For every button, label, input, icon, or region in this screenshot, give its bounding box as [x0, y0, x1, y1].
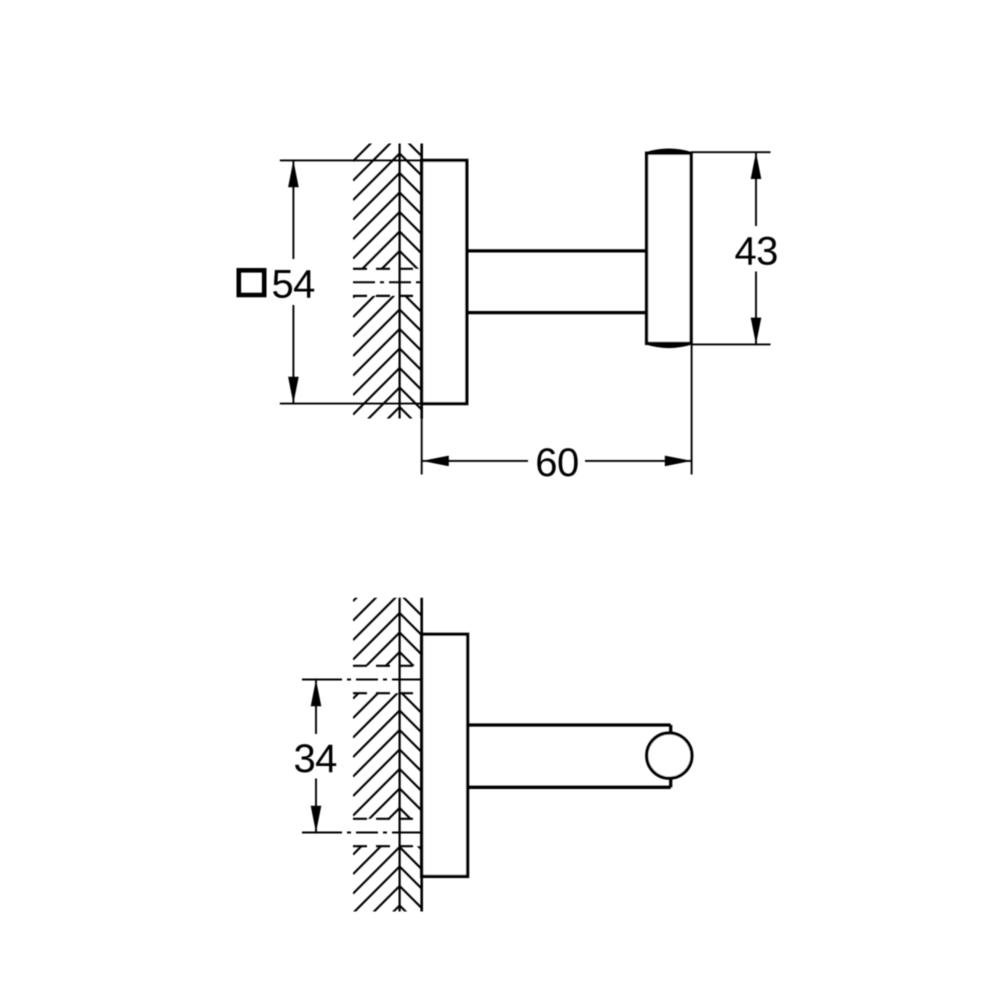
top view: hidden hole dashed lines — [353, 269, 422, 296]
upper hole centerline / dim 34 extension top — [302, 679, 422, 681]
top view: wall surface line — [420, 144, 423, 419]
dimension 60 dimension line — [422, 460, 692, 462]
dimension 43 extension line top — [691, 151, 770, 153]
dimension 43 dimension line — [755, 152, 757, 344]
lower hole centerline / dim 34 extension bottom — [302, 832, 422, 834]
top view: hook arm top edge — [467, 249, 647, 252]
dimension 54 extension line top — [280, 159, 467, 161]
dimension 34 dimension line — [315, 680, 317, 833]
bottom view: wall hatch left masonry layer — [353, 555, 400, 953]
end bar convex bottom cap — [647, 343, 692, 346]
bottom view: knob circle — [647, 733, 692, 778]
svg-text:60: 60 — [535, 441, 578, 485]
top view: hook arm bottom edge — [467, 311, 647, 314]
bottom view: wall middle line — [399, 598, 401, 912]
dimension 60 extension line right — [691, 344, 693, 474]
dimension 60 extension line left — [421, 419, 423, 475]
bottom view: mounting plate (plan) — [422, 634, 468, 876]
svg-text:34: 34 — [294, 737, 338, 781]
dimension 43 extension line bottom — [691, 343, 770, 345]
bottom view: arm end line — [669, 725, 672, 787]
bottom view: hook arm top edge — [468, 723, 671, 726]
svg-text:43: 43 — [735, 229, 778, 273]
top view: wall hatch right finish layer — [400, 134, 422, 429]
bottom view: wall hatch right finish layer — [400, 594, 422, 928]
bottom view: hidden hole dashed lines — [353, 666, 422, 846]
square symbol of dimension 54 — [239, 270, 264, 295]
top view: wall middle line — [399, 144, 401, 419]
dimension 54 extension line bottom — [280, 403, 467, 405]
top view: hole centerline — [353, 281, 422, 283]
bottom view: hook arm bottom edge — [468, 786, 671, 789]
end bar convex top cap — [647, 150, 692, 153]
svg-text:54: 54 — [272, 263, 316, 307]
dimension 54 dimension line — [292, 160, 294, 403]
bottom view: wall surface line — [420, 598, 423, 912]
top view: wall hatch left masonry layer — [353, 115, 400, 454]
top view: vertical end bar — [647, 153, 692, 343]
top view: mounting plate (side) — [422, 160, 467, 403]
